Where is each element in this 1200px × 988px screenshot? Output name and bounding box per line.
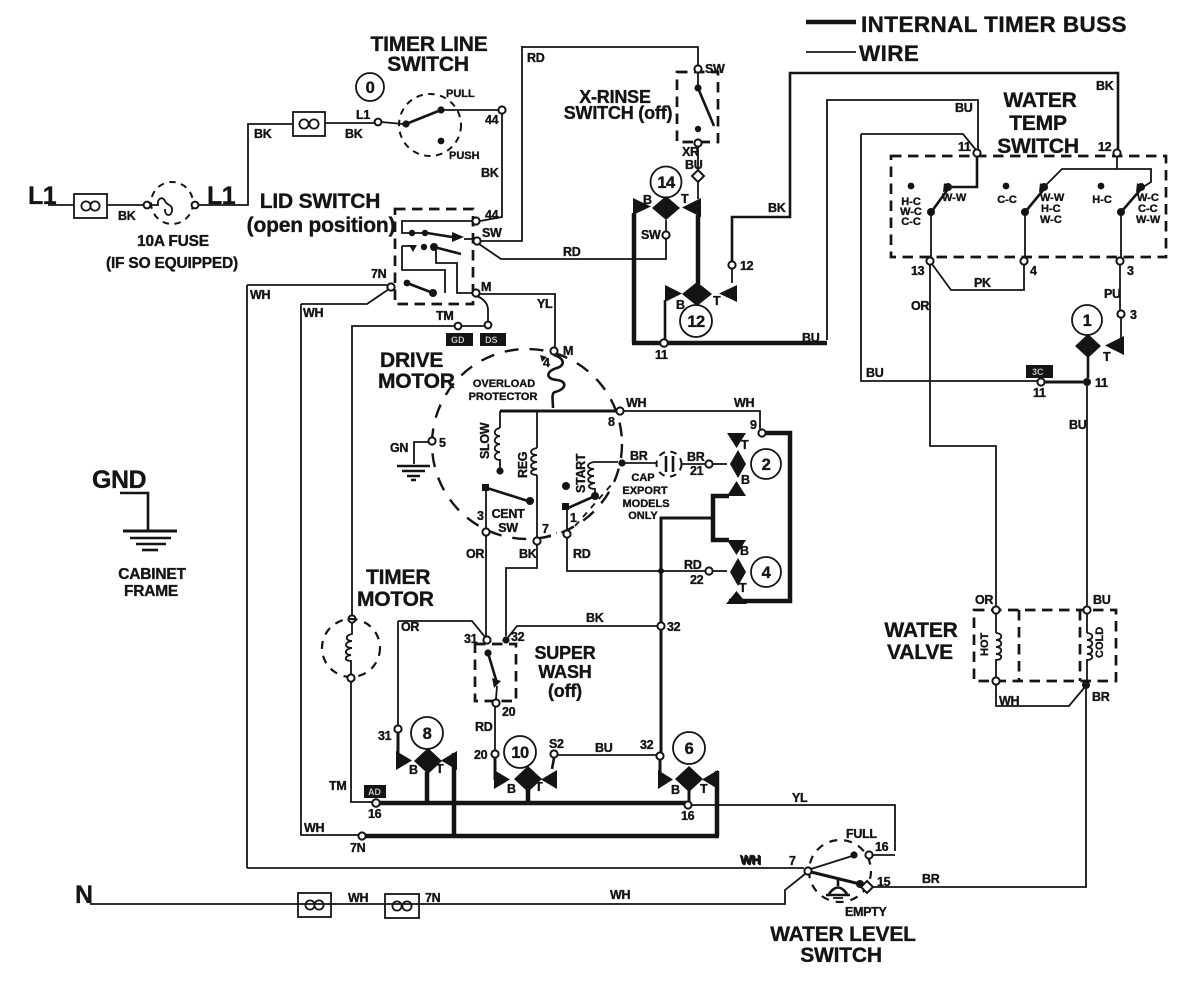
svg-text:MOTOR: MOTOR bbox=[357, 588, 434, 611]
svg-text:9: 9 bbox=[750, 418, 757, 432]
svg-text:SWITCH: SWITCH bbox=[387, 53, 469, 76]
buss 8-B down to 16 run bbox=[425, 772, 430, 803]
svg-text:11: 11 bbox=[1033, 386, 1046, 400]
svg-text:MOTOR: MOTOR bbox=[378, 370, 455, 393]
svg-text:(off): (off) bbox=[548, 681, 582, 701]
svg-text:12: 12 bbox=[1098, 140, 1112, 154]
svg-text:12: 12 bbox=[740, 259, 754, 273]
cam circle 10 bbox=[504, 736, 536, 768]
wire YL from node 16 to water level switch bbox=[692, 805, 895, 851]
super wash lever bbox=[484, 649, 501, 699]
svg-text:BR: BR bbox=[922, 872, 940, 886]
wire OR corner to super wash 31 bbox=[398, 621, 485, 637]
svg-text:B: B bbox=[671, 783, 680, 797]
svg-text:16: 16 bbox=[875, 840, 889, 854]
wire 32 down to contact 6 bbox=[656, 752, 663, 759]
wire 44 down to lid switch bbox=[480, 114, 502, 221]
svg-text:CENT: CENT bbox=[492, 507, 525, 521]
svg-text:T: T bbox=[535, 780, 543, 794]
svg-text:TM: TM bbox=[329, 779, 346, 793]
svg-text:SWITCH: SWITCH bbox=[997, 135, 1079, 158]
svg-text:11: 11 bbox=[655, 348, 668, 362]
terminal 31 contact 8 bbox=[394, 725, 401, 732]
terminal 11 water temp bbox=[973, 149, 980, 156]
svg-text:44: 44 bbox=[485, 113, 499, 127]
svg-text:WH: WH bbox=[610, 888, 630, 902]
node 16 left bbox=[372, 799, 379, 806]
svg-text:L1: L1 bbox=[356, 108, 370, 122]
terminal SW of 14 bbox=[665, 220, 667, 231]
terminal 20 super wash bbox=[492, 699, 499, 706]
svg-text:WH: WH bbox=[250, 288, 270, 302]
svg-text:SW: SW bbox=[641, 228, 661, 242]
svg-text:OR: OR bbox=[401, 620, 419, 634]
node 11 on buss (redraw) bbox=[660, 339, 668, 347]
svg-text:10A FUSE: 10A FUSE bbox=[137, 233, 209, 250]
water level switch S6 (dashed circle) bbox=[809, 840, 871, 902]
terminal 12 water temp bbox=[1113, 149, 1120, 156]
wire from diamond 1 down to node 11 bbox=[1087, 357, 1090, 378]
x-rinse lever bbox=[694, 72, 714, 132]
pressure dome bbox=[829, 878, 847, 894]
svg-text:S2: S2 bbox=[549, 737, 564, 751]
svg-text:SW: SW bbox=[705, 62, 725, 76]
svg-text:T: T bbox=[681, 192, 689, 206]
cam circle 12 bbox=[680, 305, 712, 337]
svg-text:8: 8 bbox=[608, 415, 615, 429]
terminal 20 contact 10 bbox=[491, 750, 498, 757]
svg-text:BU: BU bbox=[802, 331, 820, 345]
wire OR down to contact 8-31 bbox=[397, 621, 399, 725]
svg-text:16: 16 bbox=[681, 809, 695, 823]
svg-text:BR: BR bbox=[1092, 690, 1110, 704]
svg-text:32: 32 bbox=[640, 738, 654, 752]
motor internal bus bbox=[500, 410, 617, 413]
svg-text:BU: BU bbox=[866, 366, 884, 380]
terminal 7 motor bbox=[533, 537, 540, 544]
svg-text:OVERLOAD: OVERLOAD bbox=[473, 378, 535, 390]
svg-text:M: M bbox=[481, 280, 491, 294]
svg-text:SWITCH (off): SWITCH (off) bbox=[564, 103, 673, 123]
wire BK from motor 7 down to super wash bbox=[506, 545, 537, 636]
svg-text:BK: BK bbox=[345, 127, 363, 141]
svg-text:BU: BU bbox=[685, 158, 703, 172]
svg-text:3C: 3C bbox=[1032, 367, 1044, 377]
capacitor C1 (export models) bbox=[622, 450, 705, 522]
svg-text:FULL: FULL bbox=[846, 827, 877, 841]
terminal 8 bbox=[616, 407, 623, 414]
svg-text:22: 22 bbox=[690, 573, 704, 587]
cam circle 6 bbox=[673, 732, 705, 764]
svg-text:PULL: PULL bbox=[446, 88, 475, 100]
svg-text:WH: WH bbox=[741, 854, 761, 868]
internal timer buss from 14-T down to 12 diamond bbox=[696, 215, 701, 284]
svg-text:YL: YL bbox=[537, 297, 553, 311]
timer contact group 1 (diamond T) bbox=[1075, 334, 1124, 364]
svg-text:21: 21 bbox=[690, 464, 704, 478]
wire OR from motor 3 down to super wash 31 bbox=[485, 535, 487, 636]
terminal 31 super wash bbox=[483, 636, 490, 643]
buss 8-T down to 7N run bbox=[452, 753, 457, 836]
svg-text:M: M bbox=[563, 344, 573, 358]
hot valve solenoid bbox=[979, 613, 1001, 678]
svg-text:C-C: C-C bbox=[997, 194, 1017, 206]
cold valve solenoid bbox=[1087, 613, 1106, 681]
svg-text:BK: BK bbox=[519, 547, 537, 561]
svg-text:GD: GD bbox=[451, 335, 465, 345]
svg-text:DRIVE: DRIVE bbox=[380, 349, 443, 372]
timer motor M2 (dashed circle) bbox=[348, 615, 355, 622]
terminal 21 bbox=[705, 460, 712, 467]
cam circle 8 bbox=[411, 717, 443, 749]
svg-text:B: B bbox=[507, 782, 516, 796]
node 32 on vertical bbox=[657, 622, 664, 629]
svg-text:31: 31 bbox=[378, 729, 392, 743]
connector (plug) on N wire bbox=[298, 893, 331, 917]
terminal 1 motor bbox=[563, 530, 570, 537]
terminal 5 and GN ground bbox=[390, 436, 446, 480]
timer contact group 8 (B diamond T) bbox=[396, 732, 457, 777]
wire 12-T up and BK over to water temp bbox=[731, 268, 733, 283]
svg-text:12: 12 bbox=[687, 313, 705, 331]
svg-text:PU: PU bbox=[1104, 287, 1121, 301]
svg-text:WATER LEVEL: WATER LEVEL bbox=[770, 923, 916, 946]
svg-text:BK: BK bbox=[481, 166, 499, 180]
drive motor M1 (dashed circle) bbox=[432, 349, 622, 539]
wire WH from 8 over to 9 bbox=[624, 411, 760, 429]
svg-text:3: 3 bbox=[1127, 264, 1134, 278]
svg-text:16: 16 bbox=[368, 807, 382, 821]
terminal box 3C bbox=[1026, 365, 1053, 378]
svg-text:WH: WH bbox=[999, 694, 1019, 708]
svg-text:HOT: HOT bbox=[979, 633, 991, 657]
REG winding bbox=[516, 411, 537, 537]
svg-text:WH: WH bbox=[348, 891, 368, 905]
wire RD top run to x-rinse bbox=[522, 47, 698, 66]
svg-text:6: 6 bbox=[685, 740, 694, 758]
svg-text:WH: WH bbox=[303, 306, 323, 320]
lid switch internal contacts bbox=[402, 221, 473, 293]
internal timer buss right loop (9 to 4-T) bbox=[729, 433, 790, 601]
svg-text:(open position): (open position) bbox=[247, 214, 396, 237]
svg-text:13: 13 bbox=[911, 264, 925, 278]
svg-text:T: T bbox=[700, 782, 708, 796]
svg-text:OR: OR bbox=[466, 547, 484, 561]
svg-text:H-C: H-C bbox=[1092, 194, 1112, 206]
terminal 15 diamond bbox=[861, 881, 873, 893]
wire N run bbox=[90, 874, 805, 904]
centrifugal switch bbox=[477, 484, 534, 535]
svg-text:20: 20 bbox=[502, 705, 516, 719]
wire BK from 32 over to node 32 bbox=[506, 626, 658, 640]
svg-text:OR: OR bbox=[975, 593, 993, 607]
lid switch S2 (dashed box) bbox=[395, 209, 473, 304]
svg-text:ONLY: ONLY bbox=[628, 510, 658, 522]
svg-text:(IF SO EQUIPPED): (IF SO EQUIPPED) bbox=[106, 255, 238, 272]
svg-text:2: 2 bbox=[762, 456, 771, 474]
svg-text:7: 7 bbox=[542, 522, 549, 536]
terminal S2 bbox=[550, 750, 557, 757]
terminal 32 super wash bbox=[502, 636, 509, 643]
svg-text:8: 8 bbox=[423, 725, 432, 743]
svg-text:T: T bbox=[1103, 350, 1111, 364]
svg-text:SWITCH: SWITCH bbox=[800, 944, 882, 967]
svg-text:15: 15 bbox=[877, 875, 891, 889]
svg-text:PROTECTOR: PROTECTOR bbox=[469, 391, 538, 403]
timer contact group 2 (T diamond B vertical) bbox=[727, 433, 750, 496]
svg-text:BK: BK bbox=[586, 611, 604, 625]
terminal box DS bbox=[480, 333, 506, 346]
wire RD from lid SW to x-rinse SW bbox=[479, 238, 666, 259]
overload protector winding bbox=[548, 355, 564, 408]
wire BR to capacitor bbox=[618, 459, 625, 466]
svg-text:RD: RD bbox=[684, 558, 702, 572]
node BR junction bbox=[1082, 681, 1090, 689]
x-rinse switch S3 (dashed box) bbox=[677, 72, 718, 142]
svg-text:TIMER: TIMER bbox=[366, 566, 430, 589]
node 7N bbox=[358, 832, 365, 839]
timer line switch S1 (dashed circle, PULL/PUSH) bbox=[375, 88, 498, 162]
node 16 on buss (redraw) bbox=[372, 799, 380, 807]
svg-text:5: 5 bbox=[439, 436, 446, 450]
svg-text:START: START bbox=[574, 453, 588, 493]
svg-text:BU: BU bbox=[1069, 418, 1087, 432]
svg-text:EMPTY: EMPTY bbox=[845, 905, 888, 919]
water temp switch S4 (dashed box) bbox=[891, 156, 1166, 257]
svg-text:RD: RD bbox=[527, 51, 545, 65]
svg-text:XR: XR bbox=[682, 145, 699, 159]
svg-text:PK: PK bbox=[974, 276, 991, 290]
fuse F1 10A (dashed circle with element) bbox=[106, 182, 238, 272]
SLOW winding bbox=[478, 411, 504, 475]
svg-text:N: N bbox=[75, 881, 93, 909]
wire 11 into box bbox=[952, 157, 977, 187]
terminal 44 lid switch bbox=[472, 217, 479, 224]
wire 32 from buss down bbox=[661, 518, 713, 754]
water level lever bbox=[804, 867, 811, 874]
svg-text:WIRE: WIRE bbox=[859, 41, 919, 66]
terminal 22 bbox=[705, 567, 712, 574]
water temp section 2 contacts bbox=[997, 157, 1151, 257]
svg-text:REG: REG bbox=[516, 452, 530, 478]
wire WH long run to water level switch bbox=[247, 867, 804, 869]
wire PU from 3 down bbox=[1119, 264, 1121, 310]
svg-text:BU: BU bbox=[595, 741, 613, 755]
svg-text:11: 11 bbox=[1095, 376, 1108, 390]
wire to timer line switch, label L1 bbox=[325, 122, 374, 124]
terminal XR bbox=[694, 139, 701, 146]
svg-text:WASH: WASH bbox=[538, 662, 591, 682]
svg-text:44: 44 bbox=[485, 208, 499, 222]
terminal OR hot valve bbox=[992, 606, 999, 613]
cam circle 2 bbox=[751, 449, 781, 479]
svg-text:WATER: WATER bbox=[1003, 89, 1076, 112]
wire from 12-B down to buss node 11 bbox=[664, 300, 667, 340]
wire second WH vertical bbox=[301, 304, 358, 835]
svg-text:YL: YL bbox=[792, 791, 808, 805]
terminal box AD bbox=[364, 785, 386, 798]
node 11 on buss bbox=[660, 339, 667, 346]
terminal 4 bbox=[1020, 257, 1027, 264]
svg-text:B: B bbox=[409, 763, 418, 777]
wire BR down to water level switch 15 bbox=[872, 689, 1086, 887]
node 3 splice bbox=[1117, 310, 1124, 317]
svg-text:INTERNAL TIMER BUSS: INTERNAL TIMER BUSS bbox=[861, 12, 1127, 37]
water valve (dashed boxes) bbox=[974, 610, 1116, 681]
wire PK from 13 to 4 bbox=[932, 264, 1024, 290]
START winding bbox=[562, 453, 618, 530]
ground GND symbol bbox=[92, 466, 186, 600]
timer contact group 12 (B diamond T) bbox=[665, 282, 737, 312]
svg-text:SW: SW bbox=[482, 226, 502, 240]
svg-text:CABINET: CABINET bbox=[118, 566, 186, 583]
wire L1 lead bbox=[48, 204, 74, 206]
svg-text:7: 7 bbox=[789, 854, 796, 868]
internal timer buss 16 run bbox=[380, 801, 686, 806]
wire RD 20 down to contact 10 bbox=[494, 707, 496, 750]
svg-text:4: 4 bbox=[1030, 264, 1037, 278]
internal timer buss zigzag 2-B to 4-B bbox=[713, 496, 729, 540]
svg-text:AD: AD bbox=[368, 787, 381, 797]
wire TM down to 16 node bbox=[351, 682, 372, 802]
timer contact group 6 (B diamond T) bbox=[658, 760, 718, 797]
timer contact group 10 (B diamond T) bbox=[494, 757, 557, 796]
wire BU from buss up to water temp 11 bbox=[827, 100, 978, 340]
svg-text:7N: 7N bbox=[425, 891, 441, 905]
connector (plug) on timer line bbox=[293, 112, 325, 136]
svg-text:WH: WH bbox=[304, 821, 324, 835]
dashed linkage marks bbox=[545, 484, 612, 537]
wire left WH vertical bbox=[246, 285, 248, 868]
svg-text:B: B bbox=[740, 544, 749, 558]
water temp section 3 contacts bbox=[1092, 183, 1161, 257]
wire BU from S2 to 32 bbox=[558, 754, 656, 756]
terminal 13 bbox=[926, 257, 933, 264]
lid switch 7N lever bbox=[404, 280, 437, 297]
svg-text:W-C: W-C bbox=[1040, 214, 1062, 226]
wire WH from left vertical to 7N bbox=[247, 284, 387, 286]
timer contact group 14 (B diamond T) bbox=[633, 192, 701, 220]
svg-text:7N: 7N bbox=[350, 841, 366, 855]
wire BU from left to node 11 bbox=[861, 134, 976, 150]
connector (disconnect plug) on L1 bbox=[74, 194, 107, 218]
cam circle 0 bbox=[356, 73, 384, 101]
svg-text:0: 0 bbox=[366, 79, 375, 97]
legend INTERNAL TIMER BUSS bbox=[806, 20, 856, 25]
svg-text:GN: GN bbox=[390, 441, 408, 455]
legend WIRE bbox=[806, 51, 856, 53]
buss 10-B down to 16 run bbox=[526, 790, 531, 803]
svg-text:SW: SW bbox=[498, 521, 518, 535]
svg-text:COLD: COLD bbox=[1094, 627, 1106, 658]
svg-text:BK: BK bbox=[254, 127, 272, 141]
wire OR from 13 down to water valve bbox=[930, 264, 996, 607]
svg-text:BK: BK bbox=[768, 201, 786, 215]
svg-text:RD: RD bbox=[563, 245, 581, 259]
super wash switch S5 (dashed box) bbox=[475, 644, 516, 701]
svg-text:BK: BK bbox=[118, 209, 136, 223]
wire RD from motor 1 to 22 bbox=[567, 538, 705, 571]
wire TM from lid switch M down to timer motor bbox=[477, 296, 488, 322]
svg-text:GND: GND bbox=[92, 466, 146, 494]
svg-text:SLOW: SLOW bbox=[478, 422, 492, 459]
cam circle 4 bbox=[751, 557, 781, 587]
connector (plug) 7N on N wire bbox=[385, 894, 419, 918]
svg-text:RD: RD bbox=[573, 547, 591, 561]
svg-text:7N: 7N bbox=[371, 267, 387, 281]
svg-text:3: 3 bbox=[477, 509, 484, 523]
svg-text:20: 20 bbox=[474, 748, 488, 762]
internal timer buss horizontal 11 run bbox=[632, 341, 827, 346]
terminal BU cold valve bbox=[1083, 606, 1090, 613]
terminal 7N lid switch bbox=[387, 283, 394, 290]
svg-text:WH: WH bbox=[734, 396, 754, 410]
svg-text:RD: RD bbox=[475, 720, 493, 734]
svg-text:32: 32 bbox=[667, 620, 681, 634]
svg-text:T: T bbox=[741, 438, 749, 452]
svg-text:T: T bbox=[739, 581, 747, 595]
svg-text:PUSH: PUSH bbox=[449, 150, 480, 162]
cam circle 1 bbox=[1072, 305, 1102, 335]
terminal M drive motor bbox=[550, 347, 557, 354]
wire to fuse, label BK bbox=[107, 204, 145, 206]
wire from fuse up to second connector bbox=[198, 124, 293, 205]
svg-text:T: T bbox=[713, 294, 721, 308]
cam circle 14 bbox=[651, 167, 682, 198]
wire RD from top corner down to lid switch SW bbox=[481, 46, 522, 241]
svg-text:LID SWITCH: LID SWITCH bbox=[260, 190, 380, 213]
buss 6-T down to 7N run bbox=[715, 771, 720, 836]
timer contact group 4 (B diamond T vertical) bbox=[726, 540, 749, 604]
wire WH diagonal down to second vertical bbox=[301, 289, 389, 304]
wire WH hot valve return bbox=[996, 684, 1084, 706]
svg-text:BK: BK bbox=[1096, 79, 1114, 93]
svg-text:EXPORT: EXPORT bbox=[622, 485, 668, 497]
terminal M lid switch bbox=[472, 289, 479, 296]
svg-text:BR: BR bbox=[630, 449, 648, 463]
svg-text:BU: BU bbox=[1093, 593, 1111, 607]
terminal 3 bbox=[1116, 257, 1123, 264]
wire XR down with diamond splice bbox=[697, 146, 699, 170]
buss 6-B down to node 16 bbox=[688, 790, 691, 801]
wire BU from node 11 down to water valve bbox=[1086, 386, 1088, 607]
svg-text:B: B bbox=[741, 473, 750, 487]
svg-text:VALVE: VALVE bbox=[887, 641, 953, 664]
svg-text:14: 14 bbox=[657, 174, 676, 192]
internal timer buss 7N run bbox=[362, 834, 719, 839]
svg-text:B: B bbox=[643, 193, 652, 207]
svg-text:TM: TM bbox=[436, 309, 453, 323]
svg-text:OR: OR bbox=[911, 299, 929, 313]
terminal box GD bbox=[446, 333, 473, 346]
wire M to drive motor bbox=[479, 294, 555, 348]
svg-text:4: 4 bbox=[762, 564, 772, 582]
svg-text:MODELS: MODELS bbox=[622, 498, 669, 510]
svg-text:3: 3 bbox=[1130, 308, 1137, 322]
svg-text:1: 1 bbox=[1083, 312, 1092, 330]
svg-text:C-C: C-C bbox=[901, 216, 921, 228]
svg-text:1: 1 bbox=[570, 511, 577, 525]
terminal 44 of timer line switch bbox=[498, 106, 505, 113]
svg-text:WATER: WATER bbox=[884, 619, 957, 642]
svg-text:TEMP: TEMP bbox=[1009, 112, 1067, 135]
svg-text:WH: WH bbox=[626, 396, 646, 410]
terminal SW lid switch bbox=[473, 237, 480, 244]
svg-text:CAP: CAP bbox=[631, 472, 654, 484]
svg-text:SUPER: SUPER bbox=[534, 643, 595, 663]
svg-text:FRAME: FRAME bbox=[124, 583, 178, 600]
terminal 3 motor bbox=[482, 528, 489, 535]
